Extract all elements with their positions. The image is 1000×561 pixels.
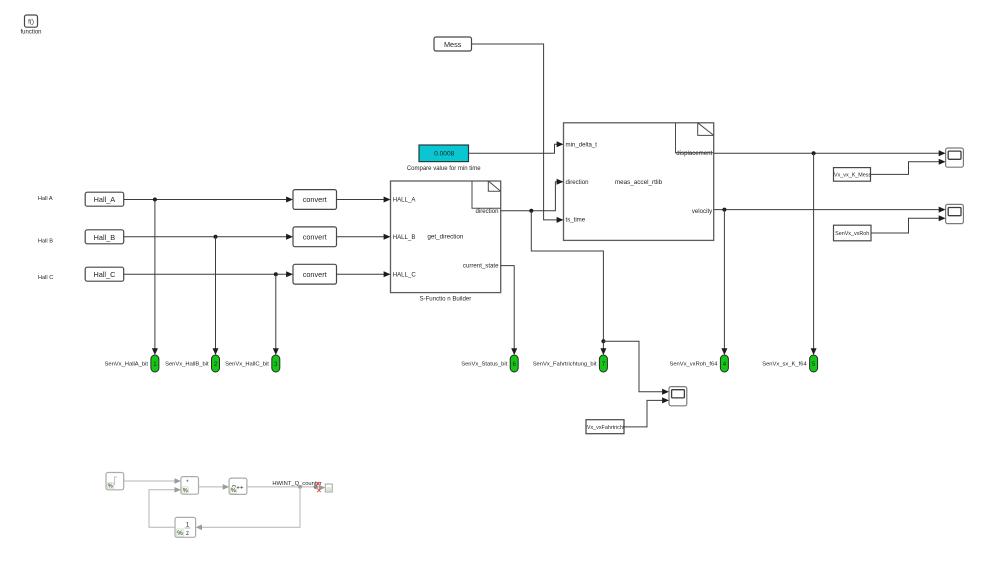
svg-text:Hall_B: Hall_B: [94, 233, 116, 242]
port 4 SenVx_vxRoh_f64: [669, 355, 728, 372]
port 3 SenVx_HallC_bit: [225, 355, 280, 372]
svg-text:Hall A: Hall A: [38, 196, 53, 202]
wire branch velocity to port 4: [721, 210, 727, 355]
junction on velocity wire: [722, 208, 726, 212]
svg-text:SenVx_HallC_bit: SenVx_HallC_bit: [225, 362, 269, 368]
svg-text:%: %: [108, 484, 113, 490]
wire Hall_C to convert C: [124, 271, 293, 277]
wire convert A to HALL_A: [337, 197, 391, 203]
wire C1 to C2: [124, 478, 181, 484]
svg-text:get_direction: get_direction: [427, 234, 464, 241]
block Hall_A: [85, 192, 124, 206]
wire Hall_A to convert A: [124, 197, 293, 203]
wire Hall_B to convert B: [124, 234, 293, 240]
wire convert B to HALL_B: [337, 234, 391, 240]
wire tag iVx_vx_K_Mess to Scope1 input 2: [871, 159, 946, 175]
wire branch Hall_C to port 3: [273, 274, 279, 355]
wire direction output to direction input: [501, 179, 564, 211]
commented increment block C3: [229, 478, 247, 494]
block convert A: [293, 190, 337, 210]
svg-text:SenVx_HallA_bit: SenVx_HallA_bit: [104, 362, 148, 368]
constant 0.0008 (Compare value for min time): [407, 145, 481, 172]
wire current_state to port 6: [501, 266, 518, 355]
wire tag SenVx_vxRoh to Scope2 input 2: [871, 215, 946, 233]
svg-text:convert: convert: [303, 270, 327, 279]
port 6 SenVx_Status_bit: [461, 355, 518, 372]
svg-text:SenVx_vxRoh: SenVx_vxRoh: [835, 231, 869, 237]
block Hall_B: [85, 230, 124, 244]
block convert C: [293, 264, 337, 284]
svg-text:displacement: displacement: [676, 150, 712, 157]
block Mess: [434, 37, 472, 51]
junction on displacement wire: [812, 151, 816, 155]
svg-text:iVx_vx_K_Mess: iVx_vx_K_Mess: [833, 173, 872, 179]
block Hall_C: [85, 267, 124, 281]
wire tag iVx_vxFahrtrichtung to Scope3 input 2: [624, 397, 669, 427]
junction on Hall_A wire: [153, 198, 157, 202]
svg-text:meas_accel_rtlib: meas_accel_rtlib: [615, 179, 663, 186]
commented product block C2: [181, 477, 199, 495]
svg-text:0.0008: 0.0008: [434, 151, 455, 158]
port 7 SenVx_Fahrtrichtung_bit: [533, 355, 608, 372]
svg-text:iVx_vxFahrtricht: iVx_vxFahrtricht: [586, 425, 625, 431]
function block f(): [20, 15, 41, 35]
svg-text:f(): f(): [28, 18, 34, 25]
junction on HWINT wire: [298, 485, 302, 489]
svg-text:%: %: [231, 488, 236, 494]
svg-text:HALL_C: HALL_C: [393, 271, 417, 278]
svg-text:ts_time: ts_time: [566, 216, 586, 223]
tag iVx_vxFahrtrichtung: [586, 420, 625, 434]
tag iVx_vx_K_Mess: [833, 168, 872, 182]
wire Mess to ts_time: [472, 44, 564, 223]
svg-text:Compare value for min time: Compare value for min time: [407, 166, 481, 172]
commented terminator block C5: [325, 484, 332, 492]
svg-text:HALL_B: HALL_B: [393, 234, 416, 241]
scope Scope2: [946, 204, 964, 223]
scope Scope1: [946, 148, 964, 167]
svg-text:current_state: current_state: [463, 263, 499, 270]
wire C4 to C2 input 2: [149, 487, 181, 527]
S-Function Builder block get_direction: [391, 181, 501, 302]
svg-text:SenVx_HallB_bit: SenVx_HallB_bit: [165, 362, 209, 368]
port 5 SenVx_sx_K_f64: [762, 355, 817, 372]
wire HWINT junction down to C4: [196, 487, 300, 530]
junction on Hall_C wire: [274, 272, 278, 276]
svg-text:S-Functio n Builder: S-Functio n Builder: [419, 295, 471, 302]
wire constant to min_delta_t: [469, 141, 564, 153]
wire velocity to Scope2 input 1: [714, 207, 946, 213]
svg-text:velocity: velocity: [692, 208, 713, 215]
svg-text:z: z: [186, 531, 189, 537]
svg-text:convert: convert: [303, 195, 327, 204]
svg-text:%: %: [183, 488, 188, 494]
svg-text:direction: direction: [475, 208, 498, 215]
wire branch to port 7: [600, 341, 606, 355]
svg-text:function: function: [20, 29, 41, 35]
wire C2 to C3: [199, 484, 230, 490]
port 2 SenVx_HallB_bit: [165, 355, 219, 372]
wire branch displacement to port 5: [811, 153, 817, 355]
svg-text:convert: convert: [303, 232, 327, 241]
scope Scope3: [669, 387, 687, 406]
junction on Fahrtrichtung wire: [601, 339, 605, 343]
port 1 SenVx_HallA_bit: [104, 355, 158, 372]
subsystem block meas_accel_rtlib: [564, 123, 714, 241]
wire branch Hall_A to port 1: [152, 200, 158, 356]
wire direction branch down to Fahrtrichtung: [531, 211, 603, 341]
red disconnect marks: [316, 482, 320, 492]
svg-text:min_delta_t: min_delta_t: [566, 141, 598, 148]
wire displacement to Scope1 input 1: [714, 150, 946, 156]
svg-text:SenVx_vxRoh_f64: SenVx_vxRoh_f64: [669, 362, 718, 368]
svg-text:SenVx_Fahrtrichtung_bit: SenVx_Fahrtrichtung_bit: [533, 362, 597, 368]
svg-text:direction: direction: [566, 179, 589, 186]
svg-text:%: %: [177, 530, 183, 537]
commented unit delay block C4: [175, 517, 196, 537]
svg-text:Hall C: Hall C: [38, 275, 53, 281]
svg-text:Mess: Mess: [444, 40, 462, 49]
svg-text:SenVx_Status_bit: SenVx_Status_bit: [461, 362, 507, 368]
junction on direction wire: [529, 209, 533, 213]
wire branch Hall_B to port 2: [213, 237, 219, 355]
svg-text:Hall_C: Hall_C: [93, 270, 115, 279]
svg-text:Hall_A: Hall_A: [94, 195, 116, 204]
wire branch to Scope3 input 1: [603, 341, 669, 395]
junction on Hall_B wire: [214, 235, 218, 239]
svg-text:SenVx_sx_K_f64: SenVx_sx_K_f64: [762, 362, 807, 368]
tag SenVx_vxRoh: [834, 225, 872, 241]
wire C3 to C5 with HWINT_Q_counter: [247, 485, 325, 491]
wire convert C to HALL_C: [337, 271, 391, 277]
svg-text:HALL_A: HALL_A: [393, 197, 417, 204]
commented source block C1: [106, 473, 124, 490]
endpoint dot on HWINT wire: [314, 485, 318, 489]
block convert B: [293, 227, 337, 247]
svg-text:Hall B: Hall B: [38, 239, 53, 245]
